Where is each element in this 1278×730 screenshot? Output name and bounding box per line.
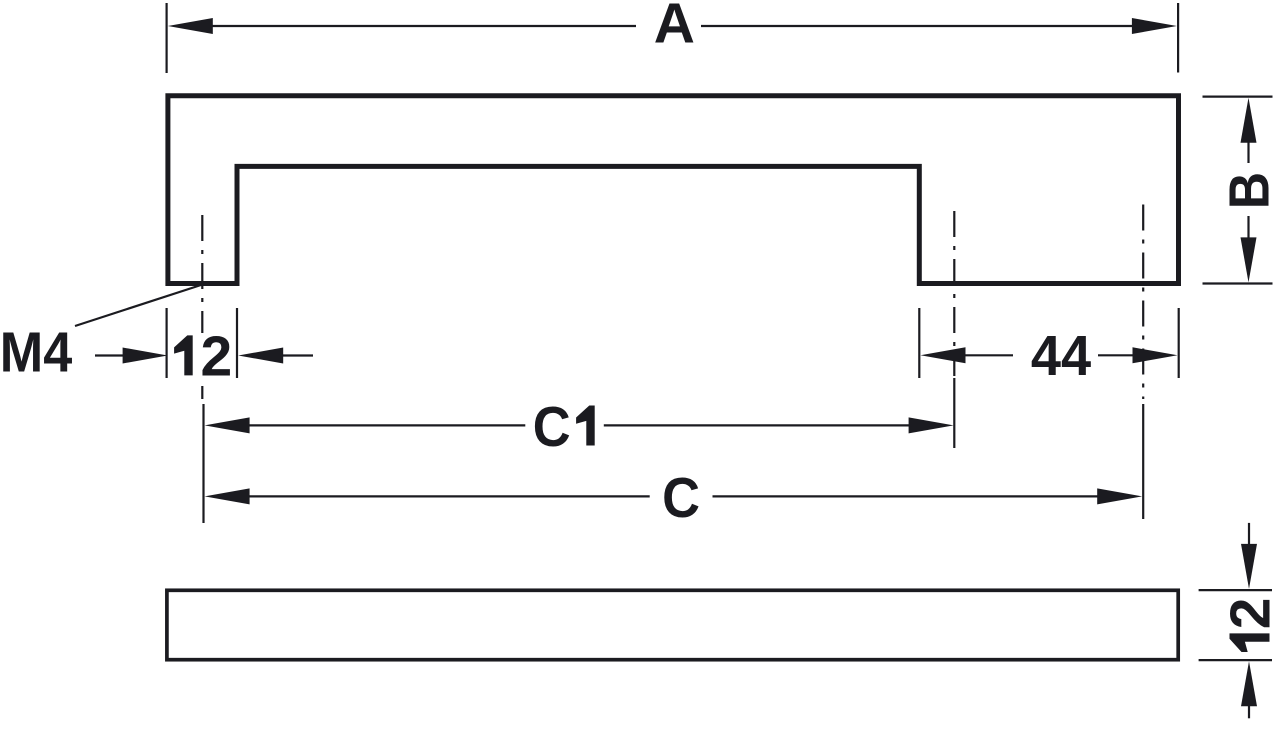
dim C1 line [245, 424, 525, 426]
dim B extension line bottom [1203, 282, 1273, 284]
centerline left hole (dash-dot) [201, 215, 203, 333]
svg-text:C: C [662, 465, 700, 530]
svg-text:C: C [533, 394, 571, 459]
centerline right hole C (dash-dot) [1142, 205, 1144, 400]
dim A line [210, 25, 636, 27]
dim 44 extension line right [1178, 308, 1180, 378]
dim A arrow left [168, 18, 213, 34]
dim A arrow right [1132, 18, 1177, 34]
dim 44 line right [1098, 354, 1135, 356]
M4 leader line [75, 285, 201, 326]
svg-text:44: 44 [1031, 324, 1091, 388]
svg-text:2: 2 [200, 325, 232, 389]
dim 12 side arrow down (above) [1248, 523, 1250, 548]
dim 12 side label (rotated) [1219, 598, 1278, 652]
dim 12 left extension line right [236, 308, 238, 378]
dim B arrow up [1247, 140, 1249, 163]
dim C arrow right [1097, 488, 1142, 504]
dim 12 side extension line bottom [1199, 659, 1272, 661]
svg-text:B: B [1217, 172, 1278, 209]
dim 12 side arrow up (below) [1248, 702, 1250, 718]
dim 12 left label [174, 335, 193, 375]
dim C1 arrow left [205, 417, 250, 433]
svg-text:M4: M4 [0, 320, 73, 384]
dim B arrow down [1247, 216, 1249, 240]
dim 44 extension line left [918, 308, 920, 378]
svg-text:A: A [654, 0, 695, 56]
dim 44 arrow left [921, 347, 966, 363]
dim A extension line left [166, 3, 168, 73]
side view outline [167, 590, 1178, 659]
extension left hole (solid) [202, 404, 204, 523]
dim 44 arrow right [1133, 347, 1178, 363]
svg-text:2: 2 [1219, 598, 1278, 630]
front view outline [168, 96, 1179, 284]
dim 12 left extension line left [166, 308, 168, 378]
dim B extension line top [1203, 95, 1273, 97]
extension right hole C1 (solid) [953, 378, 955, 448]
dim C line [245, 495, 650, 497]
dim C arrow left [205, 488, 250, 504]
dim 12 left arrow left (outside) [95, 354, 130, 356]
dim 12 left arrow right (outside) [280, 354, 313, 356]
dim C1 arrow right [909, 417, 954, 433]
dim 12 side extension line top [1199, 589, 1272, 591]
dim A extension line right [1177, 3, 1179, 73]
extension right hole C (solid) [1142, 404, 1144, 519]
dim 44 line left [960, 354, 1013, 356]
centerline right hole C1 (dash-dot) [953, 211, 955, 376]
